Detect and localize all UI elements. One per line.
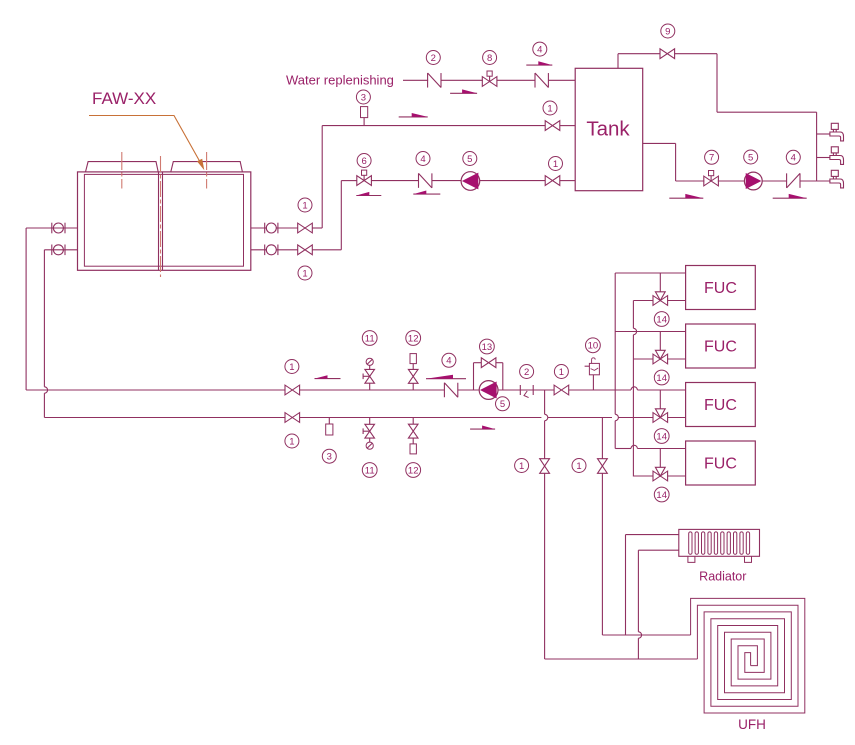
svg-text:FAW-XX: FAW-XX [92, 89, 156, 108]
wire: heat pump left lower stub [44, 249, 77, 251]
check valve 4 (water repl.) [535, 73, 548, 88]
label 1 (before FUC) [554, 365, 568, 379]
svg-text:3: 3 [327, 452, 332, 463]
wire: faucet riser [816, 112, 818, 181]
label 1 (drop 2) [572, 459, 586, 473]
check valve 2 [428, 73, 441, 88]
FAW-XX label [92, 89, 156, 108]
flow arrow left (below check 4) [413, 191, 440, 195]
flow arrow right (DHW 2) [773, 194, 807, 198]
wire: tank top riser [617, 54, 619, 69]
wire: drop 1 horizontal [545, 658, 698, 660]
flow arrow right (to tank) [526, 61, 552, 65]
wire: connector to valve [276, 227, 297, 229]
svg-text:Tank: Tank [586, 118, 630, 141]
valve 1 heat pump upper outlet [298, 223, 313, 233]
label 7 [705, 150, 719, 164]
label 4 (DHW) [786, 150, 800, 164]
heat pump unit inner frame [84, 174, 243, 266]
svg-text:10: 10 [588, 341, 599, 352]
svg-text:14: 14 [656, 314, 667, 325]
flexible joint 2 [520, 385, 533, 398]
svg-text:Radiator: Radiator [699, 570, 746, 584]
wire: left trunk 2 down [44, 250, 47, 418]
flow arrow right (feed line) [399, 113, 428, 117]
sensor 3 (feed line) [361, 107, 368, 126]
label 4 (pump row) [416, 152, 430, 166]
label 9 [661, 24, 675, 38]
radiator body [679, 529, 760, 556]
svg-text:1: 1 [519, 461, 524, 472]
label 14 (FUC1) [654, 312, 669, 327]
valve 9 [660, 49, 675, 59]
bypass valve 13 [481, 358, 496, 368]
svg-text:1: 1 [547, 103, 552, 114]
svg-text:Water replenishing: Water replenishing [286, 73, 394, 88]
svg-text:FUC: FUC [704, 339, 737, 356]
svg-text:14: 14 [656, 373, 667, 384]
wire: FUC4 supply [615, 445, 685, 448]
text: Radiator [699, 570, 746, 584]
svg-text:13: 13 [482, 342, 493, 353]
svg-text:1: 1 [289, 362, 294, 373]
text: Tank [586, 118, 630, 141]
wire: FUC return trunk [633, 301, 636, 477]
pump 5 (DHW) [744, 172, 762, 190]
text FUC 3 [704, 397, 737, 414]
svg-text:3: 3 [361, 92, 366, 103]
wire: drop 2 horizontal [602, 634, 690, 636]
svg-text:1: 1 [576, 461, 581, 472]
svg-text:7: 7 [709, 153, 714, 164]
svg-text:11: 11 [365, 333, 375, 344]
label 1 (tank feed) [543, 101, 557, 115]
air vent 12 (lower) [408, 418, 418, 454]
check valve 4 (upper main) [444, 383, 457, 398]
label 2 [426, 51, 440, 65]
svg-text:5: 5 [748, 152, 753, 163]
valve 1 (before FUC) [554, 385, 569, 395]
wire: tank pump row [341, 180, 575, 182]
label 5 (tank loop) [463, 152, 477, 166]
wire: valve to riser 1 [312, 227, 322, 229]
wire: across to faucet riser [717, 111, 817, 113]
check valve 4 (DHW) [787, 173, 800, 188]
wire: FUC2 valve line [633, 358, 685, 360]
three-way valve 14 (FUC3) [653, 409, 668, 423]
UFH coil (supply spiral) [691, 598, 805, 713]
heat pump center divider [159, 172, 163, 270]
svg-text:4: 4 [791, 153, 796, 164]
label 11 (upper) [362, 331, 377, 346]
label 1 (lower main) [285, 434, 299, 448]
label 8 [483, 51, 497, 65]
fan centerline 1 [121, 152, 123, 189]
heat pump fan cap 2 [171, 162, 243, 172]
wire: left trunk 1 down [25, 228, 27, 390]
svg-text:1: 1 [302, 268, 307, 279]
check valve 4 (pump row) [419, 173, 432, 188]
wire: upper main line [26, 387, 686, 390]
label 10 [586, 338, 601, 353]
radiator feet [688, 556, 752, 562]
svg-text:FUC: FUC [704, 456, 737, 473]
wire: water replenishing line [403, 79, 575, 81]
valve 1 (drop 1) [540, 459, 550, 474]
valve 1 (upper main) [285, 385, 300, 395]
text: Water replenishing [286, 73, 394, 88]
valve 1 (lower main) [285, 413, 300, 423]
label 14 (FUC3) [654, 429, 669, 444]
text FUC 2 [704, 339, 737, 356]
wire: FUC3 valve stub [659, 390, 661, 409]
flow arrow left (upper main) [315, 375, 341, 378]
wire: tank to DHW pump row [643, 143, 830, 181]
svg-text:12: 12 [408, 333, 419, 344]
wire: radiator riser 1 [625, 535, 627, 635]
svg-text:5: 5 [500, 399, 505, 410]
wire: radiator supply stub [626, 534, 679, 536]
FUC 4 box [686, 441, 756, 485]
label 11 (lower) [362, 463, 377, 478]
label 5 (DHW) [744, 150, 758, 164]
label 13 [480, 339, 495, 354]
wire: connector to valve lower [276, 249, 297, 251]
solenoid valve 8 [482, 71, 497, 86]
svg-text:6: 6 [361, 156, 366, 167]
valve 1 (drop 2) [598, 459, 608, 474]
pump 5 (main) [479, 381, 498, 400]
label 1 (drop 1) [515, 459, 529, 473]
wire: FUC supply trunk [615, 273, 618, 449]
svg-text:2: 2 [524, 367, 529, 378]
wire: heat pump right lower stub [251, 249, 267, 251]
wire: FUC2 supply [615, 331, 685, 333]
label 3 (lower) [322, 449, 336, 463]
wire: FUC4 valve stub [659, 449, 661, 468]
leader line to heat pump [89, 116, 204, 171]
air vent 12 (upper) [408, 354, 418, 390]
svg-text:FUC: FUC [704, 397, 737, 414]
label 1 (upper outlet) [298, 198, 312, 212]
svg-text:14: 14 [656, 431, 667, 442]
label 4 (upper main) [442, 353, 456, 367]
wire: drop 2 [601, 418, 603, 636]
svg-text:14: 14 [656, 490, 667, 501]
flex connector right lower [265, 245, 278, 256]
label 14 (FUC4) [654, 487, 669, 502]
wire: faucet stub 2 [817, 157, 830, 159]
sensor 3 (lower) [326, 418, 333, 436]
wire: FUC1 supply [615, 272, 685, 274]
svg-text:1: 1 [302, 200, 307, 211]
three-way valve 14 (FUC4) [653, 467, 668, 481]
flow arrow right (after check 2) [450, 89, 477, 93]
faucet 3 [830, 170, 844, 188]
fan centerline 2 [206, 152, 208, 189]
wire: drop 1 [545, 390, 548, 659]
svg-text:12: 12 [408, 465, 419, 476]
drain valve 11 (upper) [363, 358, 374, 390]
svg-text:1: 1 [559, 367, 564, 378]
UFH coil (return spiral) [697, 605, 798, 706]
heat pump unit FAW-XX outer casing [78, 172, 251, 270]
label 3 [356, 90, 370, 104]
drain valve 11 (lower) [363, 418, 374, 450]
label 5 (main) [496, 397, 510, 411]
text FUC 1 [704, 280, 737, 297]
wire: riser 2 up [340, 181, 342, 250]
svg-text:2: 2 [431, 53, 436, 64]
pump bypass loop [474, 363, 503, 390]
wire: top line to valve 9 [618, 53, 717, 55]
svg-text:11: 11 [365, 465, 375, 476]
label 12 (upper) [406, 331, 421, 346]
flex connector right upper [265, 223, 278, 234]
three-way valve 14 (FUC2) [653, 350, 668, 364]
label 2 (flexible joint) [520, 365, 534, 379]
wire: valve to riser 2 [312, 249, 341, 251]
label 12 (lower) [406, 463, 421, 478]
flex connector left lower [52, 245, 65, 256]
wire: riser 1 up [321, 126, 323, 228]
tank body [575, 68, 643, 190]
svg-text:5: 5 [467, 154, 472, 165]
wire: heat pump left upper stub [26, 227, 77, 229]
FUC 2 box [686, 324, 756, 368]
FUC 1 box [686, 266, 756, 310]
svg-text:1: 1 [553, 159, 558, 170]
wire: faucet stub 1 [817, 133, 830, 135]
wire: FUC1 valve line [633, 300, 685, 302]
wire: down from valve 9 [716, 54, 718, 112]
valve 1 heat pump lower outlet [298, 245, 313, 255]
wire: heat pump right upper stub [251, 227, 267, 229]
flow arrow right (DHW 1) [669, 194, 703, 198]
label 6 [357, 154, 371, 168]
three-way valve 14 (FUC1) [653, 292, 668, 306]
svg-text:4: 4 [420, 154, 425, 165]
svg-text:4: 4 [446, 356, 451, 367]
wire: radiator return stub [638, 549, 678, 551]
wire: radiator riser 2 [638, 550, 641, 659]
svg-text:UFH: UFH [738, 717, 766, 732]
valve 1 (tank return) [545, 176, 560, 186]
faucet 2 [830, 147, 844, 165]
svg-text:1: 1 [289, 436, 294, 447]
label 1 (upper main) [285, 360, 299, 374]
flow arrow left (check 4) [426, 375, 466, 379]
radiator fins [689, 532, 750, 554]
valve 7 [704, 171, 719, 186]
flow arrow left (below valve 6) [356, 192, 381, 196]
label 1 (lower outlet) [298, 266, 312, 280]
FUC 3 box [686, 383, 756, 427]
svg-text:8: 8 [487, 53, 492, 64]
label 14 (FUC2) [654, 370, 669, 385]
valve 1 (tank feed) [545, 121, 560, 131]
unit centerline [160, 156, 162, 277]
svg-text:FUC: FUC [704, 280, 737, 297]
text FUC 4 [704, 456, 737, 473]
wire: FUC1 valve stub [659, 273, 661, 292]
label 4 (water repl.) [533, 42, 547, 56]
wire: tank feed line (y=125.6) [322, 125, 575, 127]
wire: lower main line [44, 417, 685, 419]
flex connector left upper [52, 223, 65, 234]
valve 6 [357, 170, 372, 185]
svg-text:4: 4 [537, 45, 542, 56]
flow arrow right (lower main) [470, 426, 495, 430]
safety valve 10 [585, 358, 600, 390]
label 1 (tank return) [549, 157, 563, 171]
wire: FUC2 valve stub [659, 332, 661, 351]
faucet 1 [830, 123, 844, 141]
wire: FUC4 valve line [633, 475, 685, 477]
text: UFH [738, 717, 766, 732]
heat pump fan cap 1 [86, 162, 159, 172]
pump 5 (tank loop) [461, 172, 480, 191]
svg-text:9: 9 [665, 26, 670, 37]
